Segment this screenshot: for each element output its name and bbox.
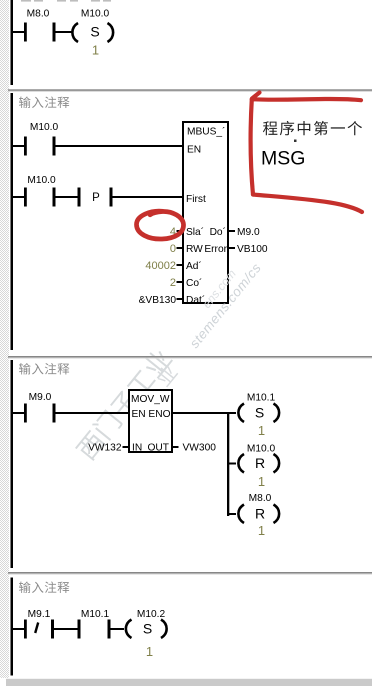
svg-text:M10.0: M10.0 [30,122,59,133]
wire: to P contact [56,196,78,198]
annotation text 程序中第一个 [263,121,277,135]
svg-text:M9.1: M9.1 [28,609,51,620]
svg-text:P: P [92,192,100,204]
network separator 1 [8,89,372,91]
pin DataPtr row: value &VB130 [177,298,184,300]
svg-text:M9.0: M9.0 [237,227,260,238]
network 1: left power rail [11,0,14,85]
pin RW row: value 0, output Error -> VB100 [177,247,184,249]
svg-text:VW300: VW300 [183,443,217,454]
wire [54,628,78,630]
svg-text:Error: Error [204,244,227,255]
pin Addr row: value 40002 [177,264,184,266]
contact P (positive edge) [78,188,113,207]
svg-text:MSG: MSG [261,148,305,170]
svg-text:M10.2: M10.2 [137,609,166,620]
svg-text:MOV_W: MOV_W [131,394,170,405]
svg-text:M10.1: M10.1 [81,609,110,620]
comment 输入注释 [19,96,31,108]
svg-text:Ad´: Ad´ [186,260,202,272]
branch vertical wire [227,412,229,516]
svg-text:2: 2 [170,277,176,289]
coil M10.1 (S) [229,412,236,414]
coil M10.0 (R) [229,463,236,465]
svg-text:IN: IN [132,443,142,454]
comment 输入注释 [19,581,31,593]
svg-text:1: 1 [146,644,153,659]
svg-text:M9.0: M9.0 [29,392,52,403]
svg-text:S: S [90,24,99,40]
svg-text:1: 1 [258,474,265,489]
svg-text:M10.0: M10.0 [27,175,56,186]
bottom scrollbar track [6,679,372,686]
svg-text:VB100: VB100 [237,244,268,255]
svg-text:RW: RW [186,244,203,255]
wire: P contact to First [113,196,184,198]
red annotation: circle around value 4 [137,211,184,239]
svg-text:OUT: OUT [147,443,169,454]
svg-text:1: 1 [258,423,265,438]
coil M10.0 (S) [72,23,113,42]
left margin hatch strip [0,0,9,678]
svg-text:VW132: VW132 [88,443,122,454]
network separator 3 [8,572,372,574]
wire: rail to contact M8.0 [13,31,24,33]
svg-text:M8.0: M8.0 [27,9,50,20]
svg-text:&VB130: &VB130 [139,295,177,306]
pin Count row: value 2 [177,281,184,283]
svg-text:1: 1 [92,43,99,58]
svg-text:S: S [143,621,152,637]
svg-text:Co´: Co´ [186,277,202,289]
watermark diagonal [75,430,107,462]
pin Slave row: value 4, output Done -> M9.0 [177,230,184,232]
svg-text:First: First [186,194,206,205]
svg-text:M10.1: M10.1 [247,393,276,404]
svg-text:Sla´: Sla´ [186,226,204,238]
svg-text:R: R [255,506,265,522]
svg-text:ENO: ENO [148,409,170,420]
svg-text:0: 0 [170,243,176,255]
svg-text:M10.0: M10.0 [247,444,276,455]
svg-text:MBUS_´: MBUS_´ [187,126,226,138]
wire: contact M8.0 to coil M10.0 [56,31,72,33]
network 4: left power rail [11,578,14,676]
wire: ENO to branch [172,412,229,414]
svg-text:M8.0: M8.0 [249,493,272,504]
svg-text:Do´: Do´ [210,226,226,238]
wire: contact to EN [56,145,184,147]
function block MBUS_ (U: MBUS_MSG) [183,122,228,303]
comment 输入注释 [19,363,31,375]
svg-text:S: S [255,405,264,421]
coil M8.0 (R) [229,513,236,515]
network separator 2 [8,356,372,358]
wire: contact to MOV_W EN [56,412,130,414]
svg-text:EN: EN [132,409,146,420]
cut-off text remnants at very top [21,0,111,2]
svg-text:1: 1 [258,523,265,538]
network 3: left power rail [11,360,14,568]
output OUT -> VW300 [172,446,179,448]
red annotation: bracket around 程序中第一个 MSG [251,93,362,213]
function block MOV_W [129,390,172,452]
svg-text:EN: EN [187,145,201,156]
wire to coil [111,628,125,630]
contact M8.0 [24,23,56,42]
network 2: left power rail [11,93,14,350]
svg-text:R: R [255,455,265,471]
svg-text:M10.0: M10.0 [81,9,110,20]
svg-text:40002: 40002 [145,260,176,272]
